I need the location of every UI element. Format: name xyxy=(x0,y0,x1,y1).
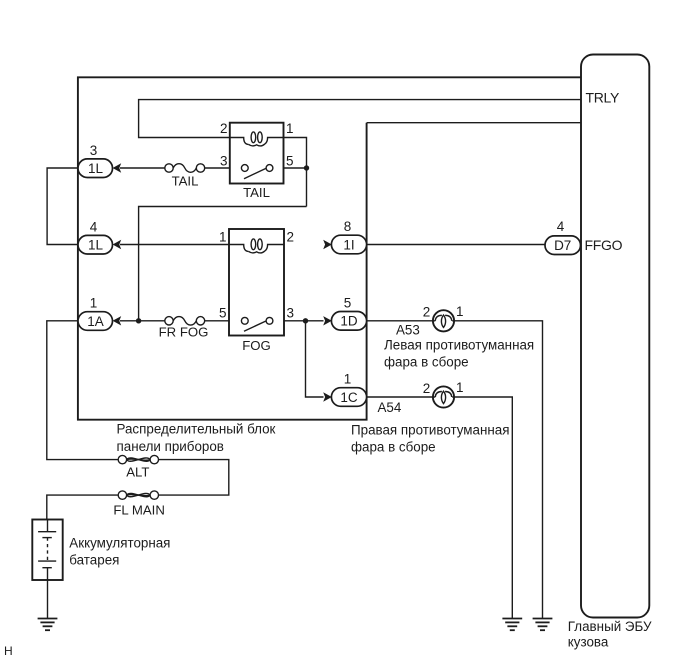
fuse FR FOG xyxy=(159,317,209,340)
connector 1L pin 3 xyxy=(78,143,121,178)
svg-text:1: 1 xyxy=(456,380,464,395)
svg-text:4: 4 xyxy=(557,219,565,234)
svg-text:FFGO: FFGO xyxy=(585,237,623,253)
svg-text:кузова: кузова xyxy=(568,634,609,649)
ground lamp A53 xyxy=(533,619,553,631)
svg-text:2: 2 xyxy=(287,230,295,245)
wire lamp A54 to ground xyxy=(454,397,512,618)
wire 1C to lamp A54 xyxy=(367,396,433,398)
junction FOG pin3 branch xyxy=(303,318,308,323)
svg-text:5: 5 xyxy=(219,306,227,321)
wire TAIL relay pin 5 to feed node xyxy=(284,167,307,169)
wire FL MAIN to battery xyxy=(47,495,118,519)
connector 1A pin 1 xyxy=(78,296,121,331)
svg-text:TAIL: TAIL xyxy=(243,185,270,200)
svg-text:1: 1 xyxy=(286,121,294,136)
connector 1C pin 1 xyxy=(323,372,366,407)
svg-text:Главный ЭБУ: Главный ЭБУ xyxy=(568,619,652,634)
junction block J/B outline (Распределительный блок панели приборов) xyxy=(78,77,581,419)
svg-text:батарея: батарея xyxy=(69,553,119,568)
relay TAIL xyxy=(220,121,294,200)
ground battery xyxy=(38,619,58,631)
svg-text:FOG: FOG xyxy=(242,338,271,353)
svg-text:1L: 1L xyxy=(88,161,104,176)
wire 1D to lamp A53 xyxy=(367,320,433,322)
svg-text:FL MAIN: FL MAIN xyxy=(113,503,165,518)
svg-text:Распределительный блок: Распределительный блок xyxy=(117,422,276,437)
label junction block xyxy=(117,422,276,454)
svg-text:5: 5 xyxy=(344,296,352,311)
fuse FL MAIN (fusible link) xyxy=(113,491,165,518)
svg-text:1: 1 xyxy=(344,372,352,387)
battery (Аккумуляторная батарея) xyxy=(32,520,170,581)
relay FOG xyxy=(219,229,294,353)
connector D7 pin 4 (FFGO) xyxy=(545,219,581,255)
svg-text:TAIL: TAIL xyxy=(172,174,199,189)
svg-text:1: 1 xyxy=(219,230,227,245)
svg-text:1: 1 xyxy=(456,304,464,319)
svg-text:1D: 1D xyxy=(340,314,358,329)
lamp A53 (Левая противотуманная фара в сборе) xyxy=(384,304,534,370)
wire 1L3 to TAIL fuse xyxy=(120,167,165,169)
fuse TAIL xyxy=(165,164,205,189)
svg-text:5: 5 xyxy=(286,154,294,169)
wire FR FOG fuse to FOG relay pin 5 xyxy=(205,320,229,322)
ground lamp A54 xyxy=(502,619,522,631)
svg-text:3: 3 xyxy=(220,154,228,169)
connector 1D pin 5 xyxy=(323,296,366,331)
svg-text:Аккумуляторная: Аккумуляторная xyxy=(69,536,170,551)
svg-text:2: 2 xyxy=(423,305,431,320)
svg-text:Левая противотуманная: Левая противотуманная xyxy=(384,337,534,352)
wire J/B right edge to ECU at y=122.7 xyxy=(367,122,581,124)
wire TAIL relay pin 1 to feed node xyxy=(284,138,307,207)
wire 1A to ALT fuse xyxy=(47,321,118,460)
svg-text:панели приборов: панели приборов xyxy=(117,439,224,454)
svg-text:1C: 1C xyxy=(340,390,358,405)
svg-text:3: 3 xyxy=(287,306,295,321)
wire FOG relay pin 3 to 1D xyxy=(284,320,324,322)
wire TRLY net (ECU pin to TAIL relay coil pin 2) xyxy=(139,100,581,138)
wire 1A to FR FOG fuse xyxy=(120,320,165,322)
svg-text:8: 8 xyxy=(344,219,352,234)
svg-text:2: 2 xyxy=(220,121,228,136)
svg-text:фара в сборе: фара в сборе xyxy=(384,355,469,370)
wire ALT to FL MAIN xyxy=(159,460,229,496)
svg-text:2: 2 xyxy=(423,381,431,396)
junction TAIL pin5/pin1 xyxy=(304,165,309,170)
fuse ALT (fusible link) xyxy=(118,455,158,479)
svg-text:1L: 1L xyxy=(88,238,104,253)
svg-text:A54: A54 xyxy=(378,400,402,415)
wire feed bypass to 1A net xyxy=(139,207,307,321)
wire 1L4 to FOG relay pin 1 xyxy=(120,244,229,246)
wire battery to ground xyxy=(47,580,49,618)
svg-text:1A: 1A xyxy=(87,314,104,329)
wire branch to 1C xyxy=(306,321,324,397)
svg-text:Н: Н xyxy=(4,644,13,658)
svg-text:ALT: ALT xyxy=(126,465,149,480)
connector 1I pin 8 xyxy=(323,219,366,254)
svg-text:фара в сборе: фара в сборе xyxy=(351,439,436,454)
svg-text:A53: A53 xyxy=(396,323,420,338)
svg-text:Правая противотуманная: Правая противотуманная xyxy=(351,422,509,437)
wire 1I to D7 xyxy=(367,244,545,246)
connector 1L pin 4 xyxy=(78,219,121,254)
svg-text:4: 4 xyxy=(90,219,98,234)
svg-text:D7: D7 xyxy=(554,238,571,253)
wire lamp A53 to ground xyxy=(454,321,542,619)
svg-text:1I: 1I xyxy=(343,237,354,252)
ECU U1 (Главный ЭБУ кузова) xyxy=(568,55,652,650)
svg-text:1: 1 xyxy=(90,296,98,311)
junction feed on 1A wire xyxy=(136,318,141,323)
lamp A54 (Правая противотуманная фара в сборе) xyxy=(351,380,509,454)
svg-text:TRLY: TRLY xyxy=(586,90,621,106)
wire TAIL fuse to relay pin 3 xyxy=(205,167,230,169)
wire jumper 1L3 to 1L4 xyxy=(47,168,78,245)
svg-text:FR FOG: FR FOG xyxy=(159,325,209,340)
svg-text:3: 3 xyxy=(90,143,98,158)
